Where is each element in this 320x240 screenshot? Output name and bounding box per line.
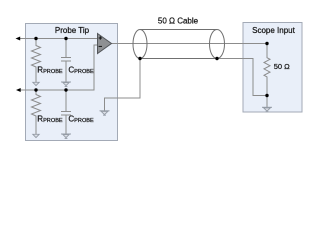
svg-text:50 Ω Cable: 50 Ω Cable bbox=[158, 16, 199, 25]
svg-text:Scope Input: Scope Input bbox=[252, 26, 295, 35]
svg-text:50 Ω: 50 Ω bbox=[274, 62, 290, 71]
svg-text:Probe Tip: Probe Tip bbox=[55, 26, 90, 35]
